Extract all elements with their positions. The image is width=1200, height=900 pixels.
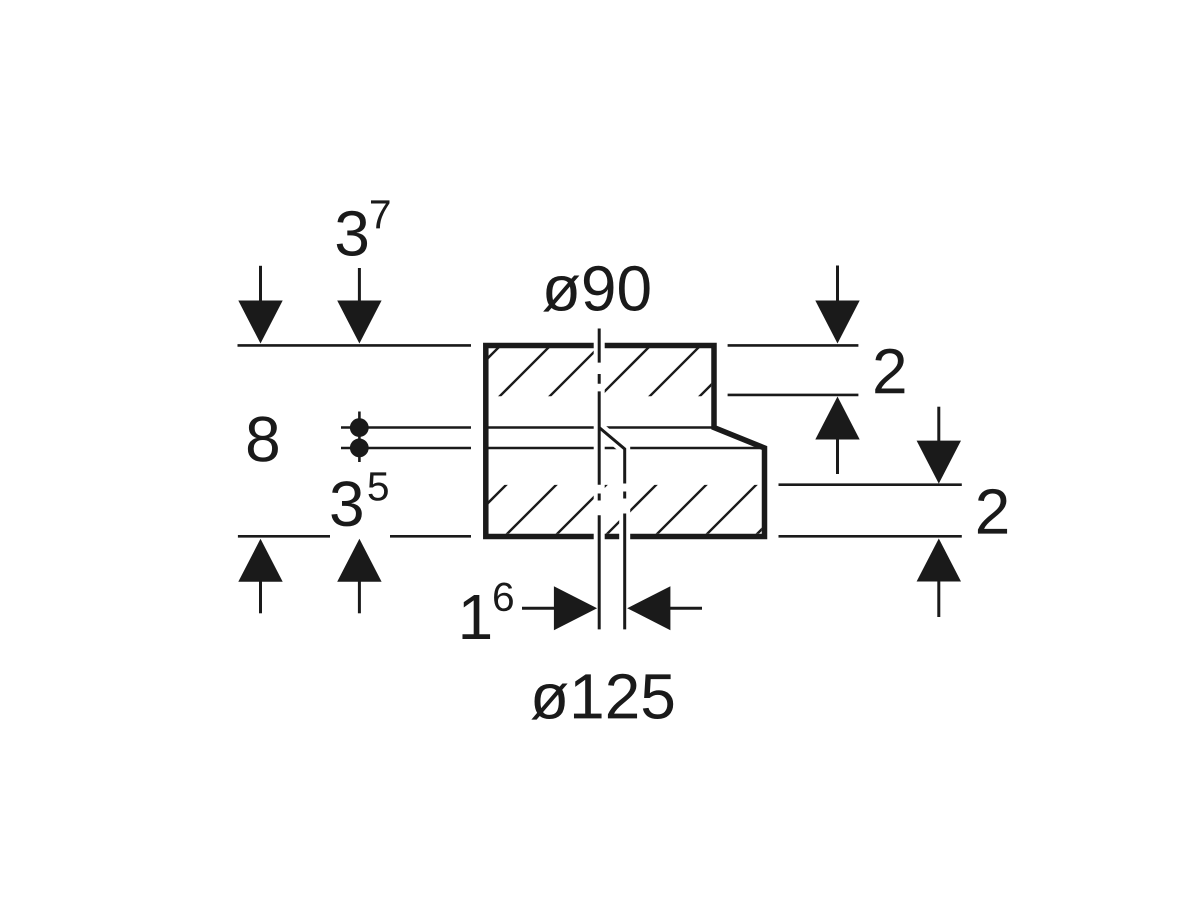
label 3.7 main xyxy=(337,211,367,256)
label 3.7 sup xyxy=(371,200,390,228)
inner edge line upper (socket depth boundary) xyxy=(487,426,712,429)
centerline o90 white casing xyxy=(594,328,605,631)
centerline o125 jog white casing xyxy=(599,428,625,631)
arrow down right lower (dim 2 bottom) xyxy=(917,407,961,484)
arrow up left outer (dim 8 overall, bottom) xyxy=(238,539,282,614)
label o125 xyxy=(531,674,673,720)
dimension dot lower xyxy=(350,439,369,458)
label o90 xyxy=(543,266,649,312)
label 1.6 main xyxy=(462,595,490,639)
extension lines right bottom pair xyxy=(779,485,962,537)
extension lines right top pair xyxy=(728,345,859,395)
label 3.5 sup xyxy=(369,472,388,500)
arrow right-pointing (dim 1.6) xyxy=(522,586,597,630)
arrow left-pointing (dim 1.6) xyxy=(627,586,702,630)
arrow down left outer (dim 8 overall, top) xyxy=(238,266,282,344)
arrow down left inner (dim 3.7) xyxy=(337,268,381,344)
arrow down right upper (dim 2 top) xyxy=(815,266,859,344)
hatching upper band xyxy=(442,340,756,404)
label 3.5 main xyxy=(331,481,361,526)
centerline o125 (jogged branch) xyxy=(599,428,625,630)
label 2 top right xyxy=(875,349,904,394)
arrow up right upper (dim 2 top) xyxy=(815,397,859,475)
label 8 xyxy=(248,416,278,461)
label 1.6 sup xyxy=(494,582,513,611)
extension line top left xyxy=(238,344,472,347)
reducer body outline xyxy=(486,346,765,537)
dot dimension line upper xyxy=(341,426,471,429)
label 2 bottom right xyxy=(978,489,1007,534)
dimension dot upper xyxy=(350,418,369,437)
dot stem xyxy=(358,412,361,463)
hatching lower band xyxy=(449,478,813,542)
arrow up right lower (dim 2 bottom) xyxy=(917,539,961,618)
extension line bottom left (gap for 3.5 text halo) xyxy=(238,535,471,538)
arrow up left inner (dim 3.5) xyxy=(337,539,381,614)
dot dimension line lower xyxy=(341,447,471,450)
inner edge line lower xyxy=(487,447,762,450)
centerline o90 (dash-dot, jog extension) xyxy=(598,329,601,630)
